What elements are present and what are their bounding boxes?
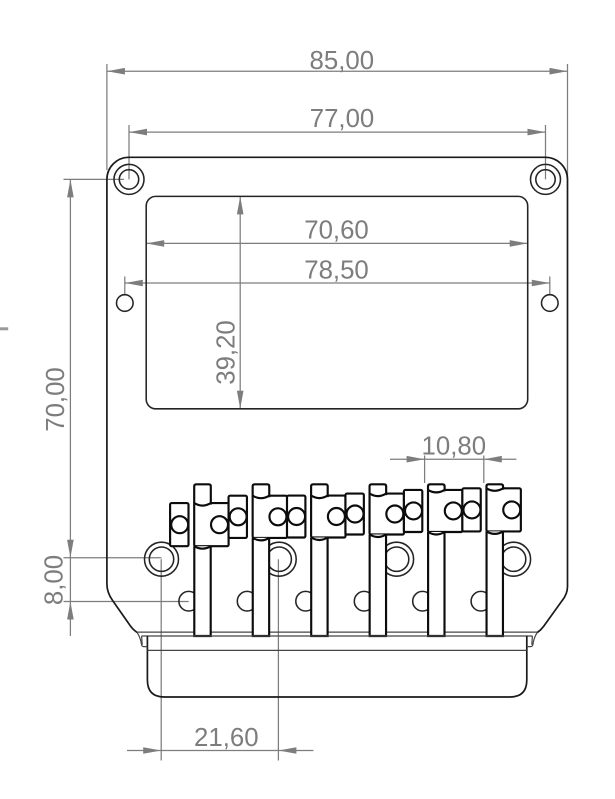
dim 70,60 [146, 217, 528, 247]
screw hole right [542, 295, 559, 312]
ferrule 4 [497, 542, 531, 576]
svg-text:85,00: 85,00 [310, 47, 375, 75]
dim 70,00 [42, 179, 162, 557]
saddle 2 [229, 484, 287, 636]
pickup opening [146, 196, 528, 408]
saddle 6 [462, 484, 521, 636]
ferrule 3 [380, 542, 414, 576]
tray flange line [142, 635, 533, 637]
svg-text:77,00: 77,00 [310, 105, 375, 133]
plate outline [107, 157, 568, 632]
string hole 4 [354, 591, 374, 611]
svg-text:10,80: 10,80 [422, 433, 487, 461]
svg-text:78,50: 78,50 [304, 257, 369, 285]
dim 8,00 [41, 555, 189, 636]
sheet edge dash [0, 327, 8, 330]
saddle 5 [404, 484, 463, 636]
saddle 3 [287, 484, 346, 636]
saddle 1 [170, 484, 229, 636]
string hole 3 [296, 591, 316, 611]
string hole 6 [471, 591, 491, 611]
mounting hole top-left [114, 164, 144, 194]
dim 77,00 [129, 105, 546, 180]
svg-text:21,60: 21,60 [194, 724, 259, 752]
mounting hole top-right [531, 164, 561, 194]
flange chamfer right [527, 633, 538, 647]
svg-text:70,00: 70,00 [42, 367, 70, 432]
tray lip line [147, 649, 526, 651]
ferrule 2 [262, 542, 296, 576]
ferrule 1 [145, 542, 179, 576]
dim 78,50 [125, 257, 550, 296]
string hole 5 [413, 591, 433, 611]
plate bottom edge [137, 631, 537, 633]
tray body [147, 636, 526, 697]
svg-text:39,20: 39,20 [213, 320, 241, 385]
string hole 2 [237, 591, 257, 611]
dim 85,00 [107, 47, 568, 176]
screw hole left [117, 295, 134, 312]
dim 39,20 [213, 196, 244, 408]
svg-text:8,00: 8,00 [41, 555, 69, 605]
flange chamfer left [137, 632, 147, 646]
dim 10,80 [390, 433, 516, 483]
string hole 1 [179, 591, 199, 611]
saddle 4 [345, 484, 403, 636]
dim 21,60 [127, 559, 313, 760]
svg-text:70,60: 70,60 [304, 217, 369, 245]
